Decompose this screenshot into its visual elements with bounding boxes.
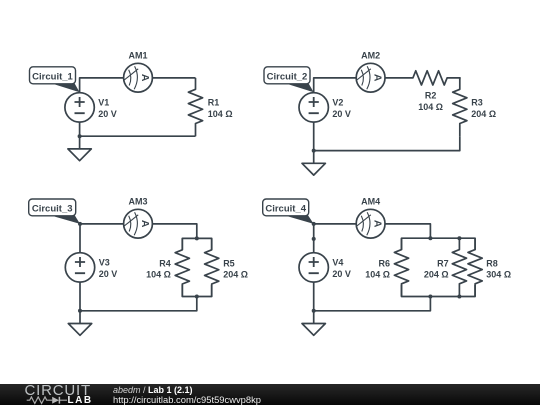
- svg-text:104 Ω: 104 Ω: [418, 102, 443, 112]
- footer bar: [0, 384, 540, 405]
- node: junction at V3 bottom: [78, 309, 82, 313]
- ammeter AM4: [356, 209, 385, 238]
- svg-text:R5: R5: [223, 258, 235, 268]
- ammeter AM1: [124, 63, 153, 92]
- svg-text:304 Ω: 304 Ω: [486, 270, 511, 280]
- node: junction at V2 bottom: [312, 149, 316, 153]
- svg-text:20 V: 20 V: [332, 109, 351, 119]
- svg-text:V4: V4: [332, 258, 343, 268]
- svg-text:Circuit_4: Circuit_4: [265, 203, 306, 214]
- wire: top run V1 to R1: [80, 78, 196, 92]
- voltage source V1: [65, 93, 94, 122]
- logo resistor-diode glyph: [26, 396, 68, 405]
- node: junction bank bottom at R7: [457, 295, 461, 299]
- svg-text:R4: R4: [159, 258, 171, 268]
- svg-text:Circuit_2: Circuit_2: [267, 71, 308, 82]
- node: junction top-left circuit 3: [78, 222, 82, 226]
- svg-text:R8: R8: [486, 258, 498, 268]
- flag Circuit_4: [263, 199, 314, 224]
- svg-text:204 Ω: 204 Ω: [223, 270, 248, 280]
- node: junction at V4 bottom: [312, 309, 316, 313]
- svg-text:104 Ω: 104 Ω: [208, 109, 233, 119]
- wire: bank top bar: [182, 238, 211, 250]
- svg-text:20 V: 20 V: [99, 269, 118, 279]
- wire: top run V2 to R2: [314, 78, 402, 92]
- node: junction top-left circuit 4: [312, 222, 316, 226]
- svg-text:V3: V3: [99, 258, 110, 268]
- wire: R3 bottom to V2: [314, 122, 460, 151]
- flag Circuit_2: [264, 67, 314, 92]
- svg-text:R6: R6: [378, 258, 390, 268]
- resistor R4: [175, 238, 189, 296]
- resistor R7: [452, 238, 466, 296]
- ammeter AM3: [124, 209, 153, 238]
- node: junction bank bottom at feed: [428, 295, 432, 299]
- node: junction at V1 bottom: [78, 134, 82, 138]
- wire: bank top bar: [402, 238, 476, 250]
- svg-text:104 Ω: 104 Ω: [365, 270, 390, 280]
- svg-text:R3: R3: [471, 98, 483, 108]
- node: junction bank bottom: [195, 295, 199, 299]
- footer text: [113, 386, 193, 395]
- logo CIRCUIT wordmark: [25, 383, 91, 398]
- svg-text:20 V: 20 V: [98, 109, 117, 119]
- svg-text:AM1: AM1: [128, 51, 147, 61]
- node: junction bank top at R7: [457, 236, 461, 240]
- wire: bank bottom bar: [402, 285, 476, 297]
- svg-text:AM4: AM4: [361, 197, 380, 207]
- svg-text:Circuit_1: Circuit_1: [32, 71, 73, 82]
- ground (circuit 1): [68, 136, 91, 161]
- node: junction bank top at feed: [428, 236, 432, 240]
- wire: top run node to bank: [314, 224, 431, 253]
- resistor R8: [468, 238, 482, 296]
- wire: top run node to bank: [80, 224, 197, 253]
- svg-text:R2: R2: [425, 91, 437, 101]
- voltage source V4: [299, 253, 328, 282]
- ground (circuit 2): [302, 151, 325, 176]
- resistor R1: [188, 78, 202, 136]
- node: junction bank top: [195, 236, 199, 240]
- wire: R2 to R3 corner: [459, 77, 461, 79]
- svg-text:104 Ω: 104 Ω: [146, 270, 171, 280]
- flag Circuit_1: [30, 67, 80, 92]
- ground (circuit 3): [68, 311, 91, 336]
- wire: bottom run R1 to V1: [80, 122, 196, 136]
- wire: bank bottom bar: [182, 285, 211, 297]
- voltage source V3: [65, 253, 94, 282]
- svg-text:R7: R7: [437, 258, 449, 268]
- svg-text:20 V: 20 V: [332, 269, 351, 279]
- node: junction on V4 top wire: [312, 237, 316, 241]
- svg-text:204 Ω: 204 Ω: [471, 109, 496, 119]
- wire: bottom run bank to V3: [80, 282, 197, 311]
- ammeter AM2: [356, 63, 385, 92]
- svg-text:AM3: AM3: [128, 197, 147, 207]
- ground (circuit 4): [302, 311, 325, 336]
- resistor R6: [394, 238, 408, 296]
- svg-text:Circuit_3: Circuit_3: [32, 203, 73, 214]
- resistor R3: [453, 78, 467, 136]
- wire: bottom run bank to V4: [314, 282, 431, 311]
- resistor R2 (horizontal): [402, 71, 460, 85]
- svg-text:V1: V1: [98, 98, 109, 108]
- voltage source V2: [299, 93, 328, 122]
- svg-text:V2: V2: [332, 98, 343, 108]
- svg-text:R1: R1: [208, 98, 220, 108]
- svg-text:AM2: AM2: [361, 51, 380, 61]
- flag Circuit_3: [29, 199, 80, 224]
- resistor R5: [205, 238, 219, 296]
- svg-text:204 Ω: 204 Ω: [424, 270, 449, 280]
